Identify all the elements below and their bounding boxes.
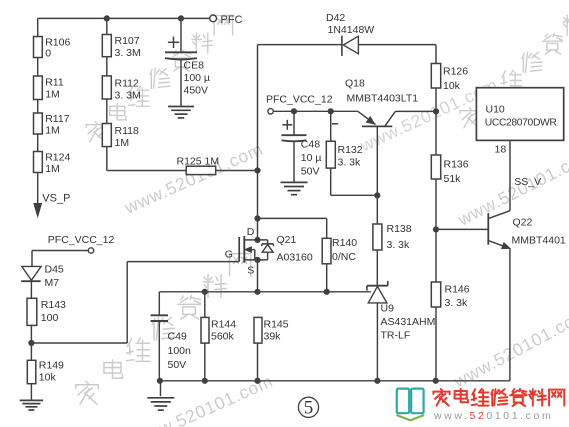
svg-text:3. 3M: 3. 3M bbox=[115, 47, 141, 59]
svg-text:10 µ: 10 µ bbox=[301, 152, 322, 164]
svg-text:R136: R136 bbox=[444, 159, 469, 171]
svg-text:G: G bbox=[225, 248, 233, 260]
svg-text:R140: R140 bbox=[332, 237, 357, 249]
svg-text:50V: 50V bbox=[168, 359, 187, 371]
svg-text:www.520101.com: www.520101.com bbox=[433, 410, 553, 422]
svg-text:D45: D45 bbox=[45, 263, 64, 275]
svg-text:MMBT4401: MMBT4401 bbox=[512, 234, 566, 246]
svg-text:U10: U10 bbox=[486, 103, 505, 115]
svg-text:100: 100 bbox=[41, 312, 59, 324]
svg-text:C49: C49 bbox=[168, 331, 187, 343]
svg-text:450V: 450V bbox=[184, 85, 209, 97]
svg-text:R11: R11 bbox=[45, 77, 64, 89]
svg-text:R149: R149 bbox=[39, 360, 64, 372]
svg-text:10k: 10k bbox=[443, 80, 461, 92]
svg-text:R118: R118 bbox=[115, 125, 139, 137]
svg-text:3. 3k: 3. 3k bbox=[445, 297, 469, 309]
svg-text:PFC_VCC_12: PFC_VCC_12 bbox=[266, 94, 333, 106]
svg-text:R132: R132 bbox=[338, 144, 363, 156]
svg-text:U9: U9 bbox=[381, 303, 395, 315]
svg-text:Q22: Q22 bbox=[513, 217, 533, 229]
svg-text:D: D bbox=[247, 226, 255, 238]
svg-text:39k: 39k bbox=[264, 331, 282, 343]
svg-text:R112: R112 bbox=[115, 78, 139, 90]
svg-text:A03160: A03160 bbox=[277, 251, 313, 263]
svg-text:R146: R146 bbox=[445, 284, 470, 296]
svg-text:VS_P: VS_P bbox=[42, 193, 70, 205]
svg-text:1M: 1M bbox=[115, 137, 130, 149]
svg-text:Q21: Q21 bbox=[277, 234, 297, 246]
svg-text:R126: R126 bbox=[443, 66, 468, 78]
svg-text:0: 0 bbox=[45, 48, 51, 60]
svg-text:PFC: PFC bbox=[221, 14, 243, 26]
svg-text:R107: R107 bbox=[115, 35, 140, 47]
svg-text:R144: R144 bbox=[211, 319, 236, 331]
svg-text:Q18: Q18 bbox=[345, 78, 365, 90]
svg-text:UCC28070DWR: UCC28070DWR bbox=[485, 117, 557, 128]
svg-text:PFC_VCC_12: PFC_VCC_12 bbox=[48, 234, 115, 246]
svg-text:100n: 100n bbox=[168, 345, 192, 357]
svg-text:TR-LF: TR-LF bbox=[381, 330, 411, 342]
svg-text:1N4148W: 1N4148W bbox=[328, 24, 375, 36]
svg-text:C48: C48 bbox=[301, 138, 320, 150]
svg-text:1M: 1M bbox=[45, 163, 60, 175]
svg-text:5: 5 bbox=[304, 398, 314, 419]
svg-text:1M: 1M bbox=[45, 125, 60, 137]
svg-text:CE8: CE8 bbox=[184, 60, 205, 72]
svg-text:3. 3k: 3. 3k bbox=[387, 239, 411, 251]
svg-text:3. 3M: 3. 3M bbox=[115, 90, 141, 102]
svg-text:18: 18 bbox=[495, 143, 507, 155]
svg-text:SS_V: SS_V bbox=[514, 176, 541, 188]
svg-text:AS431AHM: AS431AHM bbox=[381, 316, 436, 328]
svg-text:51k: 51k bbox=[444, 173, 462, 185]
svg-text:M7: M7 bbox=[45, 277, 60, 289]
svg-text:R124: R124 bbox=[45, 152, 70, 164]
svg-text:R145: R145 bbox=[264, 319, 289, 331]
svg-text:3. 3k: 3. 3k bbox=[338, 157, 362, 169]
svg-text:50V: 50V bbox=[301, 166, 320, 178]
svg-text:R143: R143 bbox=[41, 299, 66, 311]
svg-text:10k: 10k bbox=[39, 372, 57, 384]
svg-text:1M: 1M bbox=[45, 89, 60, 101]
svg-text:100 µ: 100 µ bbox=[184, 72, 211, 84]
svg-text:D42: D42 bbox=[326, 12, 345, 24]
svg-text:R138: R138 bbox=[387, 223, 412, 235]
svg-text:560k: 560k bbox=[211, 331, 235, 343]
svg-text:R125 1M: R125 1M bbox=[177, 156, 220, 168]
svg-text:R117: R117 bbox=[45, 113, 69, 125]
svg-text:0/NC: 0/NC bbox=[332, 251, 356, 263]
svg-text:S: S bbox=[247, 265, 254, 277]
svg-text:MMBT4403LT1: MMBT4403LT1 bbox=[347, 93, 419, 105]
